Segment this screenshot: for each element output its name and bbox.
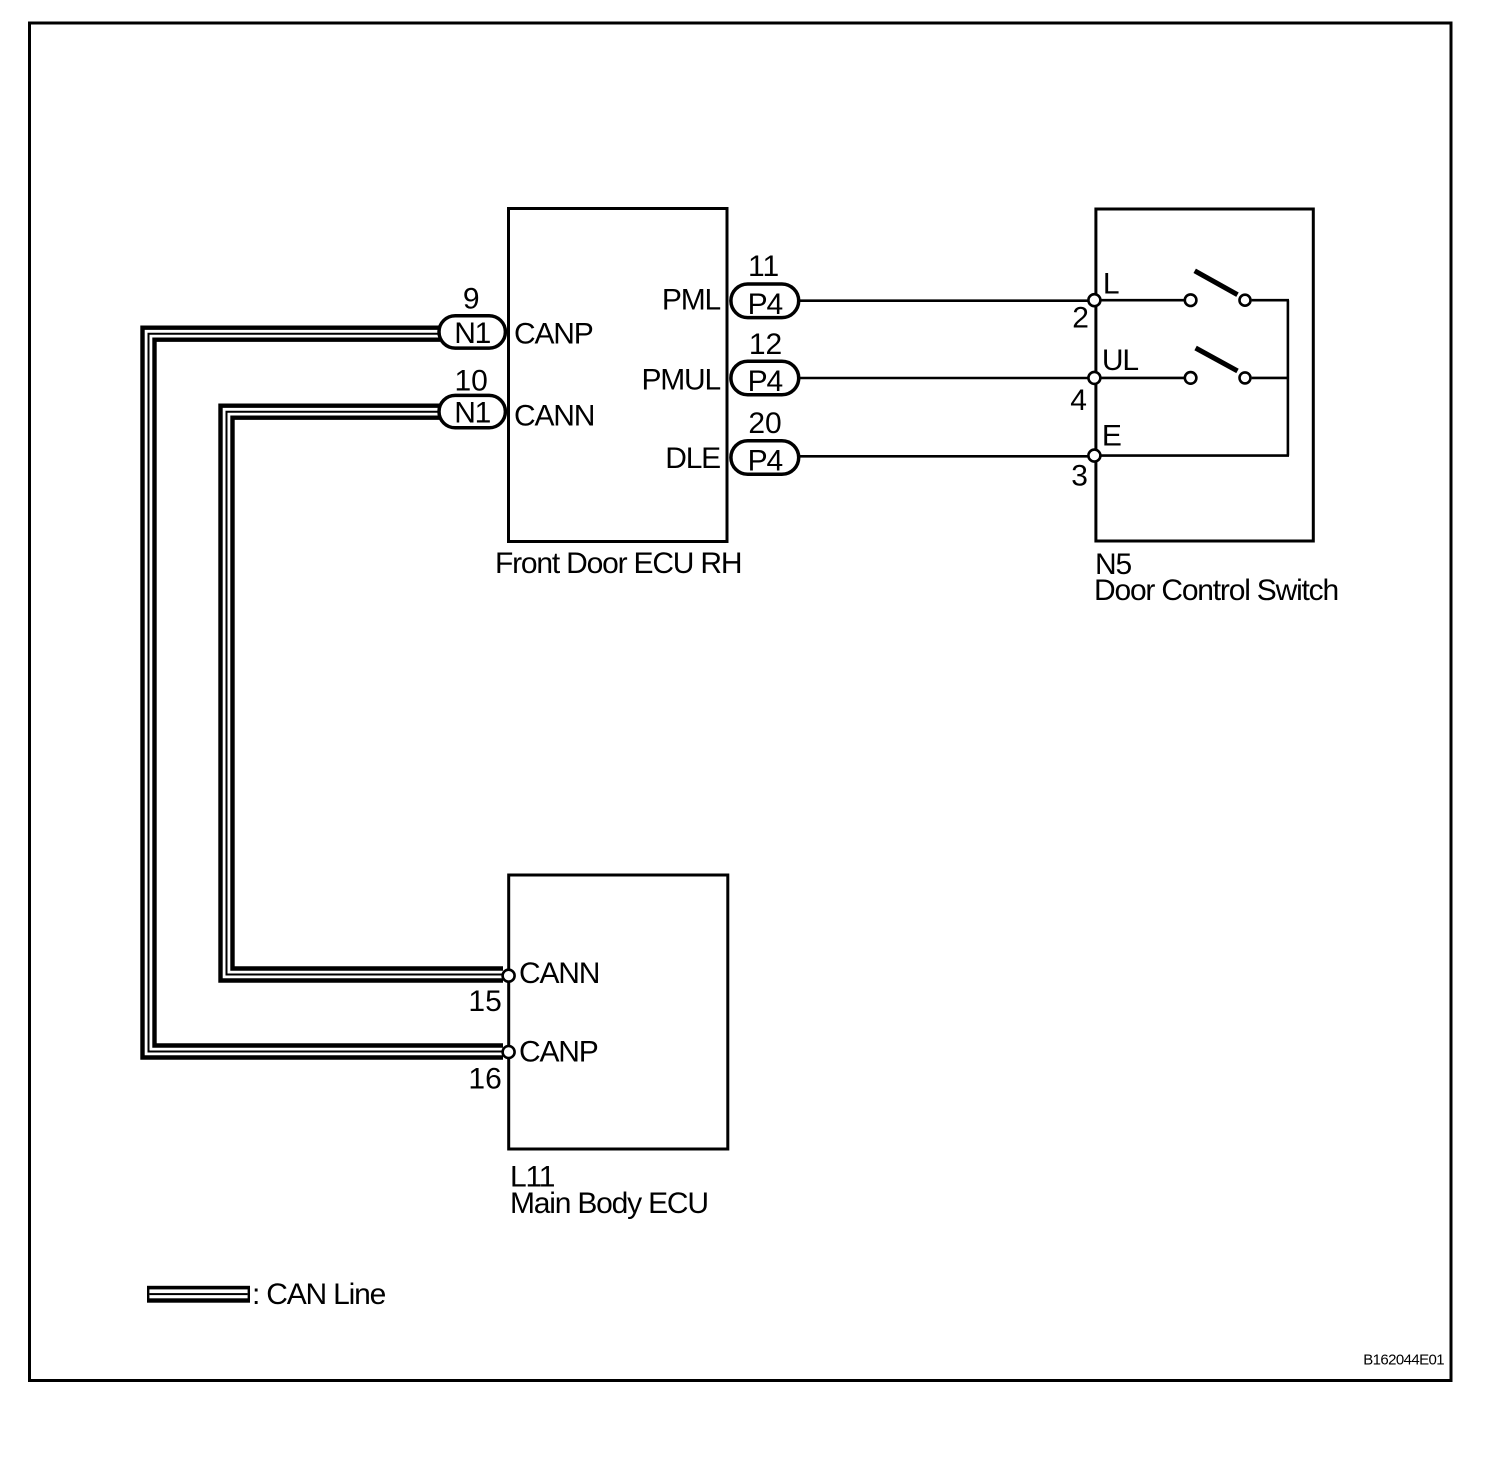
ECU box Main Body ECU L11: [509, 875, 728, 1149]
svg-text:P4: P4: [748, 365, 783, 398]
switch UL contacts: [1185, 372, 1197, 384]
pin circle E: [1088, 450, 1100, 462]
switch internal wire UL to bus: [1252, 377, 1289, 380]
svg-text:N1: N1: [454, 397, 490, 430]
svg-text:CANN: CANN: [514, 400, 594, 433]
svg-text:PML: PML: [662, 283, 721, 316]
svg-text:15: 15: [468, 985, 501, 1018]
svg-text:: CAN Line: : CAN Line: [252, 1278, 386, 1311]
svg-text:PMUL: PMUL: [641, 364, 720, 397]
svg-text:16: 16: [468, 1063, 501, 1096]
pin circle CANN (main body): [503, 970, 515, 982]
connector oval P4 pin 20: [731, 407, 799, 478]
svg-text:Front Door ECU RH: Front Door ECU RH: [495, 547, 741, 580]
svg-text:Main Body ECU: Main Body ECU: [510, 1187, 708, 1220]
svg-text:12: 12: [749, 328, 782, 361]
svg-text:10: 10: [455, 364, 488, 397]
svg-text:N1: N1: [454, 317, 490, 350]
svg-text:CANN: CANN: [519, 957, 599, 990]
svg-text:4: 4: [1070, 384, 1087, 417]
switch internal wire L to bus: [1252, 299, 1289, 302]
svg-text:CANP: CANP: [514, 318, 593, 351]
ECU box Front Door ECU RH: [509, 209, 728, 542]
connector oval N1 pin 10: [439, 364, 505, 429]
svg-text:P4: P4: [748, 445, 783, 478]
svg-text:9: 9: [463, 283, 480, 316]
svg-text:UL: UL: [1102, 344, 1138, 377]
switch L blade: [1195, 271, 1238, 295]
svg-text:3: 3: [1071, 460, 1088, 493]
svg-text:E: E: [1102, 420, 1121, 453]
connector oval P4 pin 12: [731, 328, 799, 398]
svg-text:L: L: [1103, 268, 1119, 301]
switch internal wire E row: [1101, 454, 1289, 457]
switch internal bus vertical: [1287, 300, 1290, 455]
svg-text:DLE: DLE: [665, 442, 720, 475]
switch UL blade: [1196, 348, 1238, 371]
svg-text:CANP: CANP: [519, 1036, 598, 1069]
legend CAN line symbol: [147, 1286, 250, 1303]
pin circle UL: [1088, 372, 1100, 384]
CAN line CANP net (triple line): [143, 328, 504, 1058]
switch box N5 Door Control Switch: [1096, 209, 1313, 541]
connector oval N1 pin 9: [439, 283, 505, 350]
svg-text:20: 20: [748, 407, 781, 440]
switch internal wire L row: [1101, 299, 1184, 302]
svg-text:B162044E01: B162044E01: [1363, 1352, 1444, 1369]
switch L contacts: [1185, 294, 1197, 306]
switch internal wire UL row: [1101, 377, 1184, 380]
wire PML to L: [800, 299, 1088, 302]
svg-text:Door Control Switch: Door Control Switch: [1094, 574, 1338, 607]
wire PMUL to UL: [800, 377, 1088, 380]
svg-text:2: 2: [1072, 302, 1089, 335]
wire DLE to E: [800, 455, 1088, 458]
svg-text:P4: P4: [748, 288, 783, 321]
CAN line CANN net (triple line): [221, 406, 504, 981]
connector oval P4 pin 11: [731, 250, 799, 321]
svg-text:11: 11: [748, 250, 779, 283]
pin circle CANP (main body): [503, 1046, 515, 1058]
pin circle L: [1088, 294, 1100, 306]
